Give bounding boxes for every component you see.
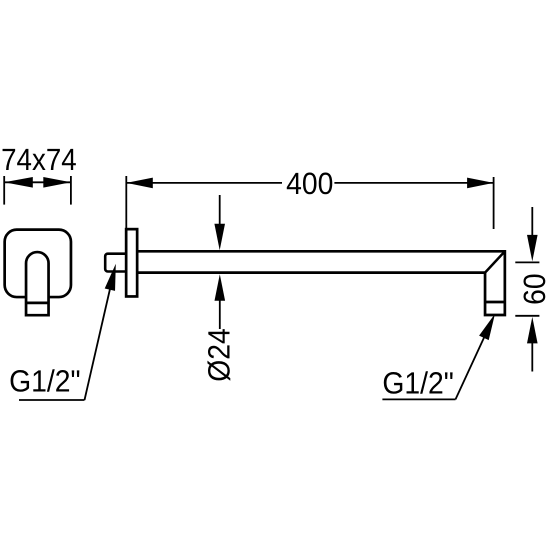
label 400: [286, 166, 333, 201]
dimension 400 line left segment: [126, 182, 282, 184]
label G1/2 left: [9, 363, 80, 398]
svg-text:74x74: 74x74: [1, 142, 77, 177]
dimension D24 top arrow line: [219, 195, 221, 226]
label G1/2 right: [382, 366, 453, 401]
leader underline right: [382, 398, 455, 400]
leader arrowhead right: [479, 314, 495, 340]
dimension 60 bottom arrow line: [531, 341, 533, 372]
dimension 400 extension line right: [493, 177, 495, 229]
front view arm tube (stadium shape): [26, 252, 49, 315]
dimension D24 bottom arrowhead: [215, 274, 226, 301]
svg-text:60: 60: [517, 273, 548, 305]
side view wall connector (threaded inlet): [105, 254, 130, 272]
side view elbow chamfer line: [485, 251, 505, 272]
dimension 400 extension line left: [125, 176, 127, 228]
side view nozzle separation line: [485, 301, 505, 304]
dimension 74x74 extension line left: [3, 176, 5, 205]
dimension 60 top tick: [515, 261, 539, 263]
dimension 74x74 line: [4, 181, 71, 183]
dimension 400 line right segment: [334, 182, 493, 184]
dimension 400 arrow right: [467, 178, 494, 189]
dimension 60 bottom arrowhead: [527, 317, 538, 344]
dimension D24 top arrowhead: [214, 224, 225, 251]
dimension 60 top arrowhead: [527, 235, 538, 262]
dimension 60 bottom tick: [515, 315, 539, 317]
leader line left: [85, 278, 113, 400]
svg-text:Ø24: Ø24: [201, 328, 236, 382]
svg-text:G1/2": G1/2": [382, 366, 453, 401]
dimension 74x74 extension line right: [70, 176, 72, 205]
side view arm and elbow outline: [137, 251, 505, 315]
dimension 400 arrow left: [126, 178, 153, 189]
dimension 74x74 arrow left: [4, 177, 33, 188]
dimension D24 bottom arrow line: [219, 299, 221, 329]
label 74x74: [1, 142, 77, 177]
front view nozzle top line: [26, 302, 49, 305]
label 60 (rotated): [517, 273, 548, 305]
side view wall flange: [126, 229, 137, 296]
svg-text:G1/2": G1/2": [9, 363, 80, 398]
dimension 74x74 arrow right: [43, 177, 71, 188]
dimension 60 top arrow line: [531, 207, 533, 237]
svg-text:400: 400: [286, 166, 333, 201]
label D24 (rotated): [201, 328, 236, 382]
leader line right: [456, 329, 489, 399]
leader arrowhead left: [105, 264, 116, 291]
leader underline left: [19, 399, 85, 401]
front view escutcheon plate (rounded square): [5, 230, 71, 297]
